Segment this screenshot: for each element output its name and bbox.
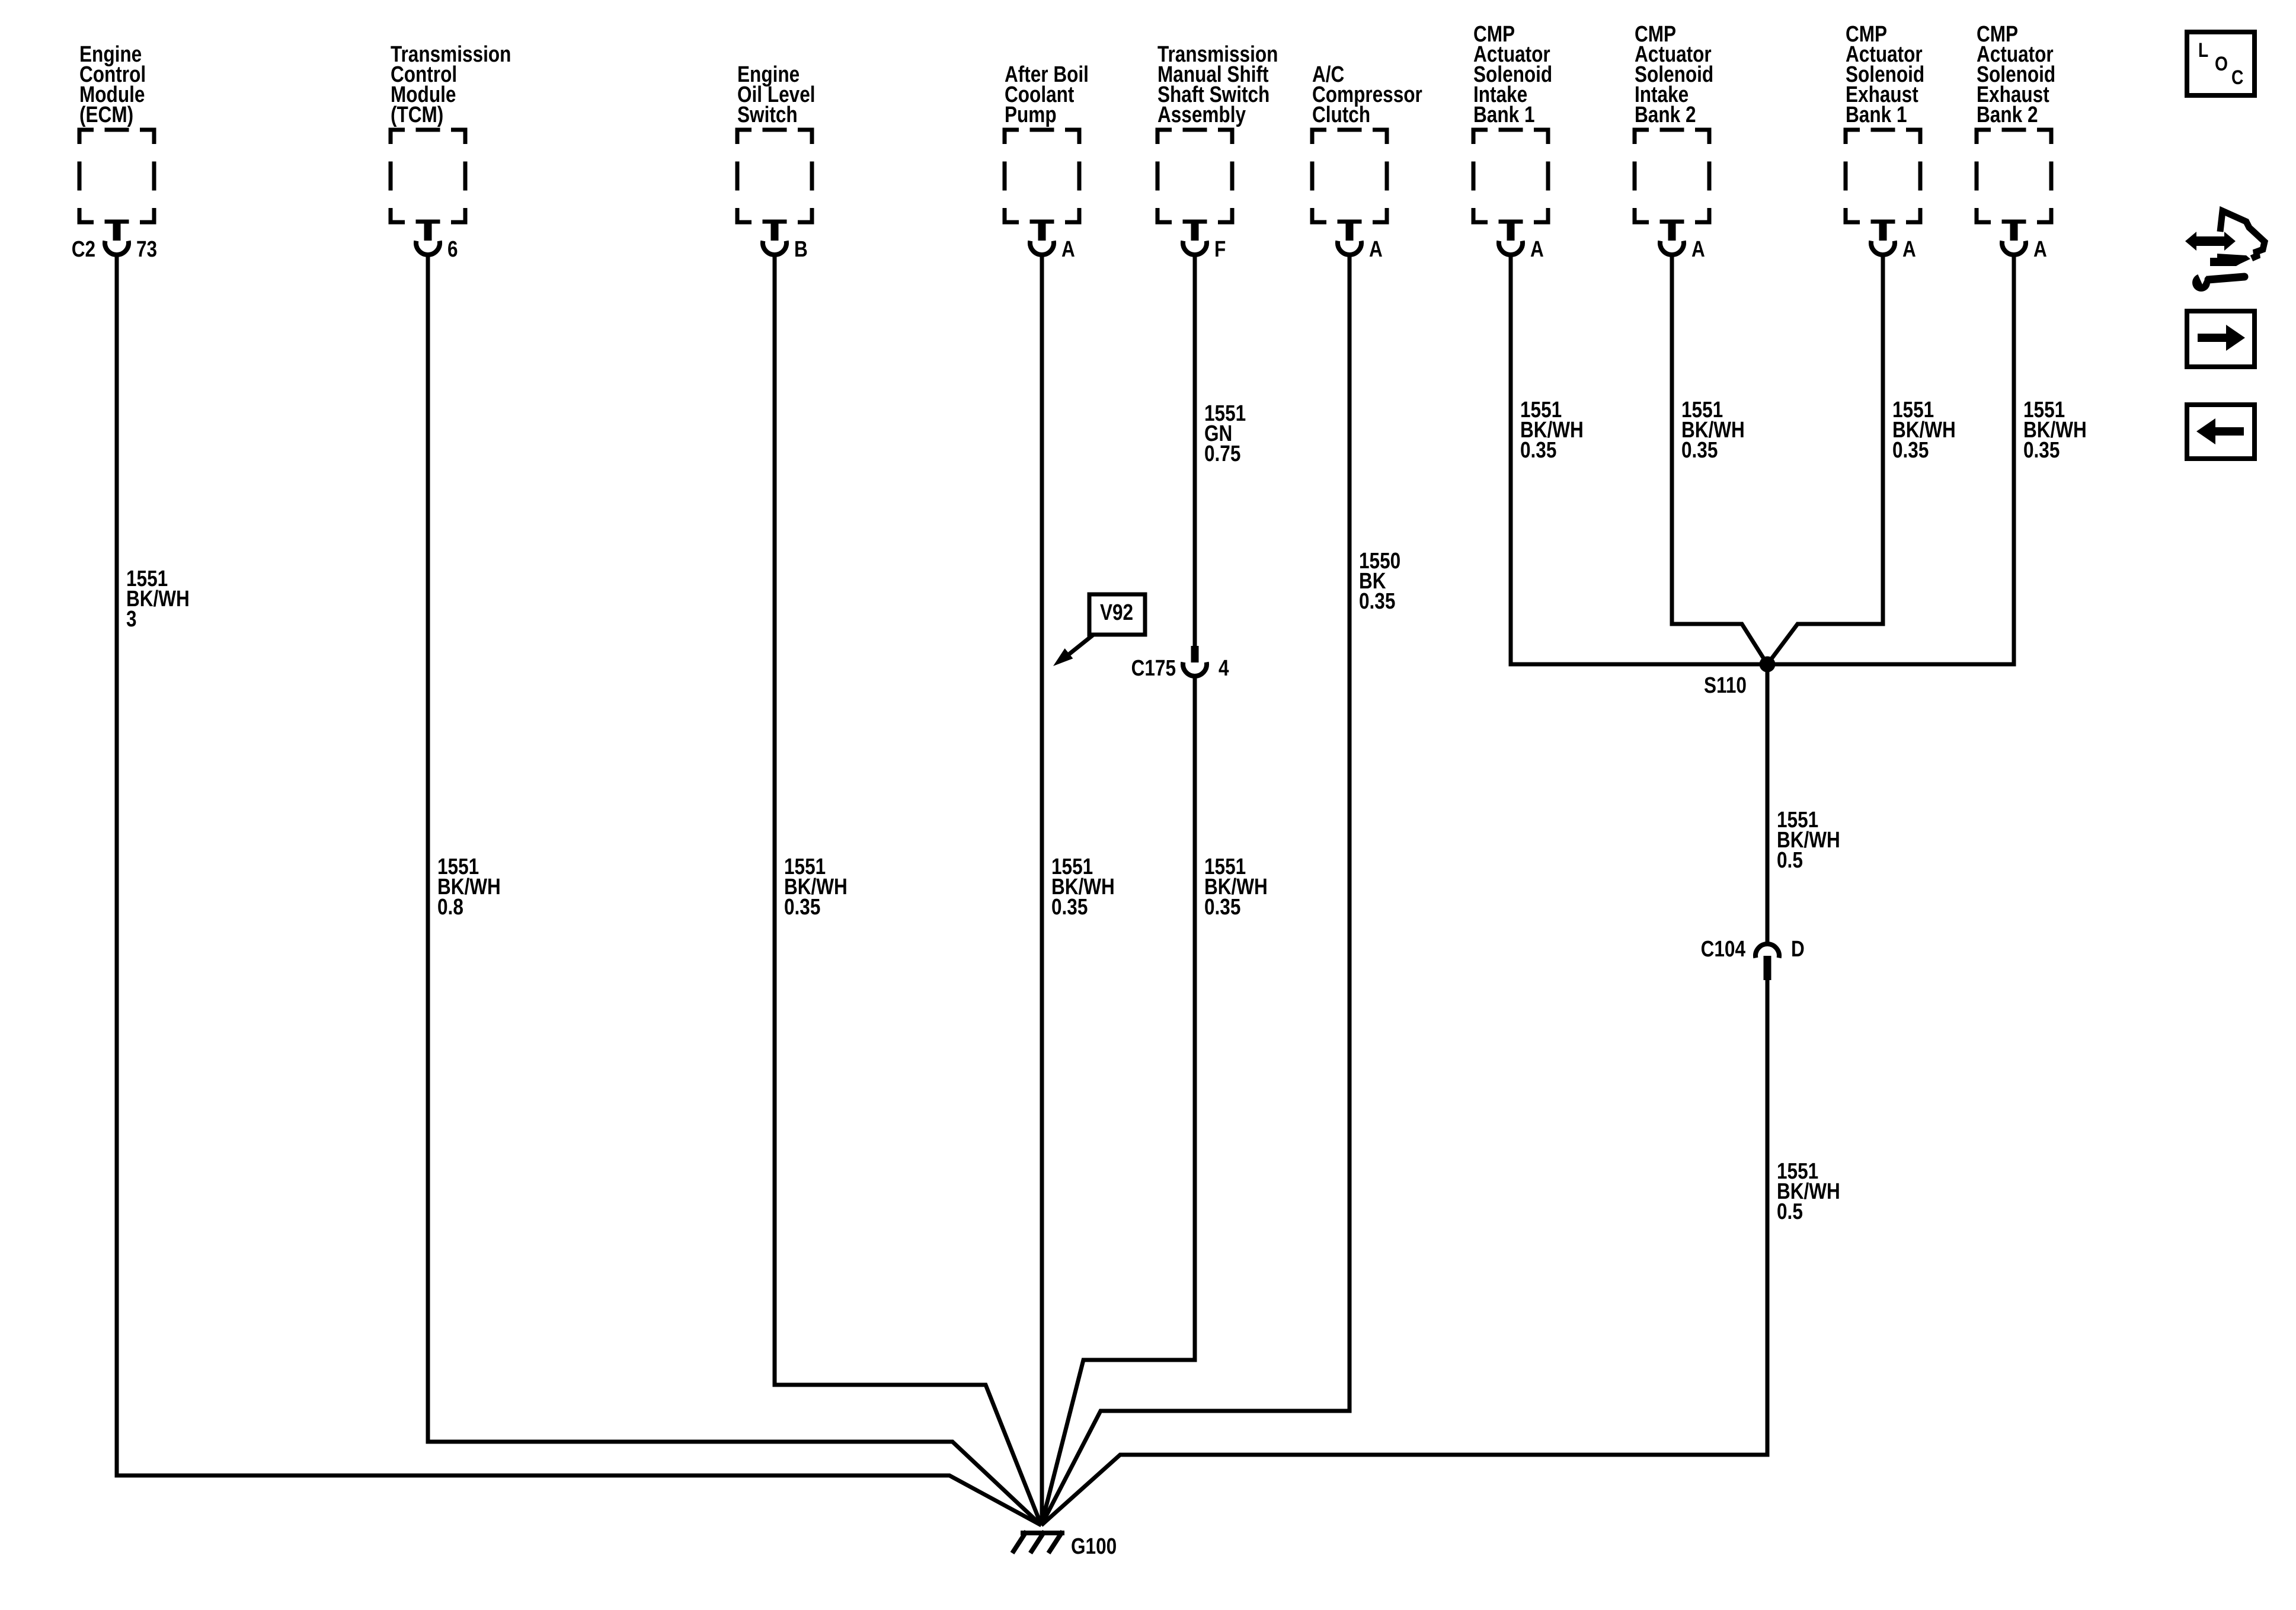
svg-text:L: L	[2198, 39, 2208, 62]
svg-text:Clutch: Clutch	[1312, 103, 1370, 127]
svg-text:Bank 2: Bank 2	[1635, 103, 1696, 127]
icon arrow left box	[2187, 405, 2255, 459]
label wire 1551 BK/WH 0.35 (Trans Shift lower)	[1204, 854, 1268, 920]
svg-text:0.35: 0.35	[784, 895, 820, 920]
svg-text:0.35: 0.35	[2023, 438, 2060, 463]
pin F terminal of Transmission Manual Shift Shaft Switch Assembly	[1183, 222, 1226, 262]
component CMP Actuator Solenoid Exhaust Bank 1	[1846, 22, 1924, 222]
wire 1551 BK/WH 0.35 from Engine Oil Level Switch pin B to G100	[775, 254, 1041, 1525]
component Transmission Manual Shift Shaft Switch Assembly	[1157, 42, 1278, 222]
wire 1551 BK/WH 0.35 from CMP Exhaust Bank 2 pin A to splice S110	[1767, 254, 2014, 664]
label wire 1551 BK/WH 0.35 (CMP Intake Bank 1)	[1520, 398, 1584, 463]
pin B terminal of Engine Oil Level Switch	[763, 222, 808, 262]
label wire 1551 BK/WH 0.5 (S110 to C104)	[1777, 808, 1840, 873]
svg-text:Pump: Pump	[1005, 103, 1057, 127]
svg-text:0.35: 0.35	[1359, 589, 1395, 614]
svg-text:0.5: 0.5	[1777, 1199, 1803, 1224]
svg-text:C2: C2	[72, 237, 95, 262]
callout V92 box with leader arrow	[1053, 594, 1145, 666]
svg-text:F: F	[1214, 237, 1226, 262]
component CMP Actuator Solenoid Exhaust Bank 2	[1977, 22, 2055, 222]
pin 6 terminal of Transmission Control Module (TCM)	[416, 222, 458, 262]
svg-text:(TCM): (TCM)	[391, 103, 443, 127]
label wire 1551 BK/WH 3 (ECM)	[126, 566, 190, 632]
svg-text:G100: G100	[1071, 1534, 1117, 1559]
svg-text:0.35: 0.35	[1204, 895, 1240, 920]
pin A terminal of CMP Actuator Solenoid Exhaust Bank 2	[2002, 222, 2047, 262]
component CMP Actuator Solenoid Intake Bank 1	[1473, 22, 1552, 222]
icon arrow right box	[2187, 311, 2255, 367]
wire 1551 BK/WH 3 from ECM pin 73 to G100	[117, 254, 1041, 1525]
pin A terminal of CMP Actuator Solenoid Intake Bank 2	[1660, 222, 1705, 262]
wire 1551 BK/WH 0.5 from splice S110 to C104	[1766, 664, 1770, 943]
svg-text:Assembly: Assembly	[1157, 103, 1246, 127]
label wire 1551 BK/WH 0.5 (C104 to G100)	[1777, 1159, 1840, 1224]
svg-text:D: D	[1791, 937, 1805, 962]
svg-text:C175: C175	[1131, 656, 1176, 681]
component Engine Control Module (ECM)	[79, 42, 154, 222]
wire 1550 BK 0.35 from A/C Compressor Clutch pin A to G100	[1041, 254, 1350, 1525]
svg-text:3: 3	[126, 607, 137, 632]
svg-text:6: 6	[447, 237, 458, 262]
ground G100 symbol	[1012, 1531, 1117, 1559]
svg-text:Bank 1: Bank 1	[1846, 103, 1907, 127]
svg-text:A: A	[1691, 237, 1705, 262]
svg-text:A: A	[1369, 237, 1383, 262]
svg-text:A: A	[2033, 237, 2047, 262]
component A/C Compressor Clutch	[1312, 62, 1422, 222]
component Transmission Control Module (TCM)	[391, 42, 511, 222]
label wire 1551 BK/WH 0.35 (After Boil Pump)	[1051, 854, 1115, 920]
icon jump-to-component (double arrow, component outline, wrench)	[2185, 211, 2265, 292]
svg-text:0.35: 0.35	[1051, 895, 1088, 920]
svg-text:O: O	[2215, 53, 2228, 75]
svg-text:Bank 2: Bank 2	[1977, 103, 2038, 127]
pin 73 terminal of Engine Control Module (ECM)	[72, 222, 157, 262]
svg-text:C: C	[2231, 66, 2243, 89]
wire 1551 BK/WH 0.5 from C104 pin D to G100	[1041, 979, 1767, 1525]
label wire 1551 BK/WH 0.35 (CMP Exhaust Bank 1)	[1892, 398, 1956, 463]
svg-text:73: 73	[136, 237, 157, 262]
label wire 1551 GN 0.75 (Trans Shift upper)	[1204, 401, 1246, 466]
wire 1551 BK/WH 0.8 from TCM pin 6 to G100	[428, 254, 1041, 1525]
label wire 1551 BK/WH 0.35 (Oil Level Switch)	[784, 854, 848, 920]
svg-text:0.35: 0.35	[1681, 438, 1718, 463]
svg-text:0.35: 0.35	[1892, 438, 1929, 463]
wire 1551 BK/WH 0.35 from CMP Intake Bank 1 pin A to splice S110	[1511, 254, 1767, 664]
svg-text:B: B	[794, 237, 808, 262]
component Engine Oil Level Switch	[737, 62, 816, 222]
svg-text:C104: C104	[1701, 937, 1745, 962]
label wire 1551 BK/WH 0.35 (CMP Intake Bank 2)	[1681, 398, 1745, 463]
svg-text:A: A	[1061, 237, 1075, 262]
svg-text:S110: S110	[1704, 673, 1747, 698]
wire 1551 BK/WH 0.35 from CMP Exhaust Bank 1 pin A to splice S110	[1767, 254, 1883, 664]
pin A terminal of A/C Compressor Clutch	[1338, 222, 1383, 262]
component CMP Actuator Solenoid Intake Bank 2	[1635, 22, 1713, 222]
pin A terminal of CMP Actuator Solenoid Exhaust Bank 1	[1871, 222, 1916, 262]
icon LOC legend box	[2187, 32, 2255, 95]
svg-text:(ECM): (ECM)	[79, 103, 133, 127]
splice S110 (junction dot)	[1704, 657, 1776, 699]
wire 1551 BK/WH 0.35 from C175 pin 4 to G100	[1041, 677, 1195, 1525]
svg-text:0.35: 0.35	[1520, 438, 1556, 463]
svg-text:Switch: Switch	[737, 103, 798, 127]
component After Boil Coolant Pump	[1005, 62, 1089, 222]
svg-text:0.5: 0.5	[1777, 848, 1803, 873]
wire 1551 BK/WH 0.35 from CMP Intake Bank 2 pin A to splice S110	[1672, 254, 1767, 664]
svg-text:A: A	[1902, 237, 1916, 262]
wire 1551 BK/WH 0.35 from After Boil Coolant Pump pin A to G100	[1040, 254, 1044, 1525]
svg-text:0.75: 0.75	[1204, 441, 1240, 466]
svg-text:A: A	[1530, 237, 1544, 262]
svg-text:V92: V92	[1100, 600, 1133, 625]
svg-text:4: 4	[1219, 656, 1229, 681]
label wire 1550 BK 0.35 (A/C Clutch)	[1359, 549, 1400, 614]
pin A terminal of After Boil Coolant Pump	[1030, 222, 1075, 262]
label wire 1551 BK/WH 0.35 (CMP Exhaust Bank 2)	[2023, 398, 2087, 463]
connector C175 pin 4 (in-line)	[1131, 646, 1229, 681]
label wire 1551 BK/WH 0.8 (TCM)	[437, 854, 501, 920]
pin A terminal of CMP Actuator Solenoid Intake Bank 1	[1499, 222, 1544, 262]
connector C104 pin D (in-line)	[1701, 937, 1805, 980]
svg-text:Bank 1: Bank 1	[1473, 103, 1535, 127]
svg-text:0.8: 0.8	[437, 895, 463, 920]
wire 1551 GN 0.75 from Transmission Manual Shift Shaft Switch pin F to C175	[1193, 254, 1197, 646]
